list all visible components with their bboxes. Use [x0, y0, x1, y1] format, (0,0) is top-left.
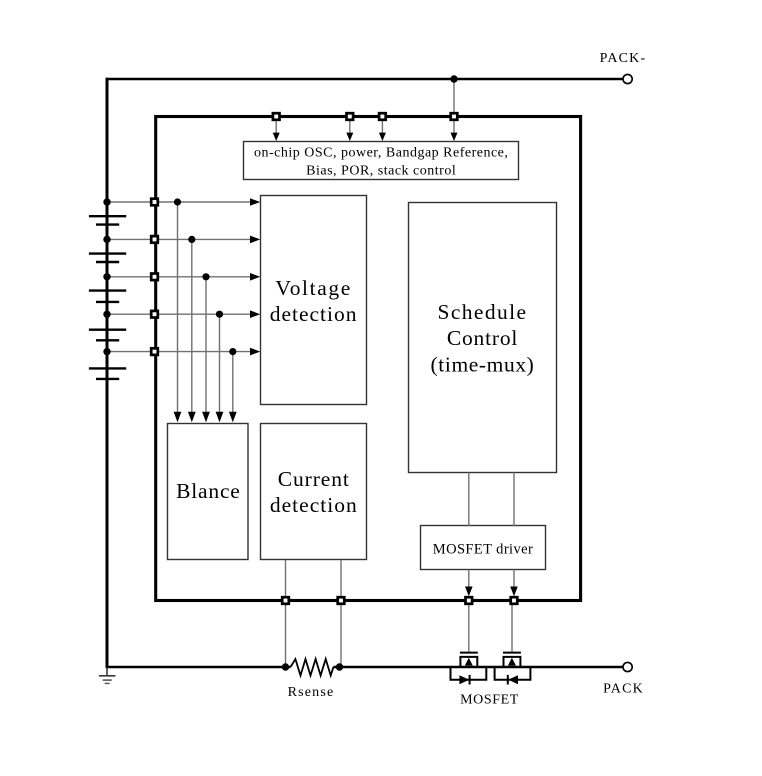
junction dot: top rail tap: [450, 75, 457, 82]
svg-text:PACK: PACK: [603, 682, 644, 697]
pin: top 4: [451, 113, 458, 120]
arrowhead: balance drop 4: [216, 412, 224, 423]
box: MOSFET driver: [421, 526, 546, 570]
wire: schedule control to MOSFET driver left: [468, 472, 470, 526]
wire: current detection sense left to Rsense: [285, 560, 287, 667]
terminal: PACK-: [623, 74, 632, 83]
battery cell 1: [89, 215, 126, 217]
arrowhead: balance drop 2: [188, 412, 196, 423]
svg-text:Voltage: Voltage: [275, 276, 352, 300]
svg-text:Rsense: Rsense: [288, 685, 335, 700]
transistor Q1 channel/body outline: [460, 657, 477, 667]
wire: balance drop 2: [191, 239, 193, 413]
ground symbol: [106, 667, 108, 676]
arrowhead: tap 3 into voltage detection: [250, 273, 260, 281]
box U1: on-chip OSC power bandgap block: [244, 142, 519, 180]
arrowhead: tap 2 into voltage detection: [250, 236, 260, 244]
junction dot: balance tap 4: [216, 311, 223, 318]
chip boundary rectangle: [156, 117, 581, 601]
svg-text:(time-mux): (time-mux): [431, 353, 535, 377]
svg-text:PACK-: PACK-: [600, 51, 647, 66]
wire: balance drop 4: [219, 314, 221, 413]
wire: tap 2 battery to voltage detection: [107, 238, 254, 240]
transistor Q1 body diode symbol: [459, 675, 469, 684]
pin: bottom sense left: [282, 597, 289, 604]
wire+arrow: MOSFET driver to bottom pin left: [468, 570, 470, 591]
arrowhead: tap 1 into voltage detection: [250, 198, 260, 206]
pin: top 3: [379, 113, 386, 120]
terminal: PACK: [623, 662, 632, 671]
wire: tap 3 battery to voltage detection: [107, 276, 254, 278]
transistor Q2 (right MOSFET) gate bar: [503, 652, 521, 654]
pin: bottom gate left: [466, 597, 473, 604]
svg-text:Control: Control: [447, 326, 518, 350]
wire: balance drop 5: [232, 352, 234, 413]
wire: bottom pin to MOSFET Q1 gate: [468, 605, 470, 652]
pin: left 3: [151, 274, 158, 281]
wire: current detection sense right to Rsense: [340, 560, 342, 667]
box: Schedule Control (time-mux): [409, 203, 557, 473]
arrowhead: tap 5 into voltage detection: [250, 348, 260, 356]
junction dot: balance tap 5: [229, 348, 236, 355]
wire: bottom pin to MOSFET Q2 gate: [511, 605, 513, 652]
transistor Q2 channel/body outline: [504, 657, 521, 667]
svg-text:Current: Current: [278, 467, 350, 491]
wire: battery stack stem (left vertical rail): [106, 78, 109, 668]
battery cell 2: [89, 252, 126, 254]
pin: left 1: [151, 199, 158, 206]
svg-text:MOSFET: MOSFET: [460, 693, 519, 708]
transistor Q2 body diode loop: [495, 667, 531, 680]
pin: left 4: [151, 311, 158, 318]
battery cell 5: [89, 367, 126, 369]
transistor Q1 source arrow (up): [465, 658, 473, 666]
svg-text:detection: detection: [270, 493, 358, 517]
junction dot: battery tap 3: [103, 273, 110, 280]
wire+arrow: top pin 4 into OSC block: [453, 121, 455, 135]
junction dot: battery tap 5: [103, 348, 110, 355]
wire: top rail drop to top pin 4: [453, 79, 455, 113]
transistor Q2 body diode symbol: [508, 675, 518, 684]
junction dot: balance tap 3: [202, 273, 209, 280]
box: Blance: [168, 424, 249, 560]
svg-text:Bias, POR, stack control: Bias, POR, stack control: [306, 164, 456, 179]
transistor Q2 source arrow (up): [508, 658, 516, 666]
wire: tap 4 battery to voltage detection: [107, 313, 254, 315]
arrowhead: tap 4 into voltage detection: [250, 310, 260, 318]
pin: top 1: [273, 113, 280, 120]
pin: left 2: [151, 236, 158, 243]
wire+arrow: top pin 3 into OSC block: [381, 121, 383, 135]
box: Current detection: [261, 424, 367, 560]
wire: tap 1 battery to voltage detection: [107, 201, 254, 203]
svg-text:on-chip OSC, power, Bandgap Re: on-chip OSC, power, Bandgap Reference,: [254, 146, 508, 161]
svg-text:detection: detection: [270, 302, 358, 326]
resistor Rsense zigzag: [291, 659, 334, 676]
wire: balance drop 3: [205, 277, 207, 413]
svg-text:Blance: Blance: [176, 479, 241, 503]
wire: balance drop 1: [177, 202, 179, 413]
pin: left 5: [151, 348, 158, 355]
pin: top 2: [347, 113, 354, 120]
wire+arrow: MOSFET driver to bottom pin right: [513, 570, 515, 591]
wire: schedule control to MOSFET driver right: [513, 472, 515, 526]
junction dot: balance tap 1: [174, 198, 181, 205]
wire: top rail from battery top to PACK- terminal: [106, 78, 623, 81]
pin: bottom sense right: [338, 597, 345, 604]
pin: bottom gate right: [511, 597, 518, 604]
arrowhead: balance drop 3: [202, 412, 210, 423]
svg-text:MOSFET driver: MOSFET driver: [433, 542, 533, 558]
transistor Q1 (left MOSFET) gate bar: [460, 652, 478, 654]
wire: tap 5 battery to voltage detection: [107, 351, 254, 353]
arrowhead: balance drop 5: [229, 412, 237, 423]
svg-text:Schedule: Schedule: [437, 300, 527, 324]
junction dot: Rsense left: [282, 663, 289, 670]
wire+arrow: top pin 2 into OSC block: [349, 121, 351, 135]
junction dot: battery tap 1: [103, 198, 110, 205]
transistor Q1 body diode loop: [451, 667, 487, 680]
battery cell 4: [89, 329, 126, 331]
arrowhead: balance drop 1: [174, 412, 182, 423]
junction dot: battery tap 2: [103, 236, 110, 243]
junction dot: Rsense right: [336, 663, 343, 670]
wire: bottom rail left segment (ground to Rsense): [106, 666, 291, 669]
battery cell 3: [89, 289, 126, 291]
wire+arrow: top pin 1 into OSC block: [275, 121, 277, 135]
junction dot: battery tap 4: [103, 311, 110, 318]
wire: bottom rail right segment (Rsense to PACK terminal): [333, 666, 622, 669]
box: Voltage detection: [261, 196, 367, 405]
junction dot: balance tap 2: [188, 236, 195, 243]
